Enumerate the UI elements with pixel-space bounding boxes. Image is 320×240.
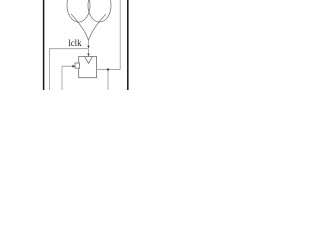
svg-text:lclk: lclk (68, 38, 82, 48)
